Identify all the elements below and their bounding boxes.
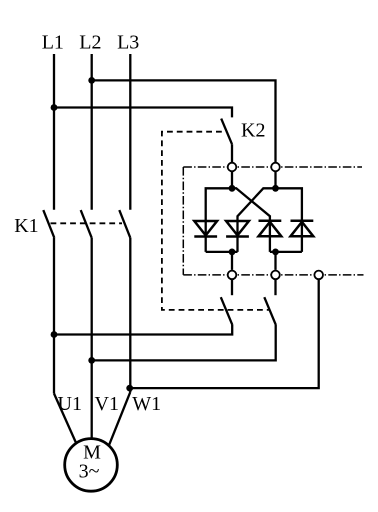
svg-text:L3: L3 [117,32,139,54]
svg-text:L2: L2 [79,32,101,54]
svg-text:W1: W1 [132,393,161,415]
svg-text:K2: K2 [241,119,265,141]
svg-text:L1: L1 [42,32,64,54]
svg-text:V1: V1 [95,393,119,415]
svg-text:3~: 3~ [79,460,100,482]
svg-text:K1: K1 [14,215,38,237]
